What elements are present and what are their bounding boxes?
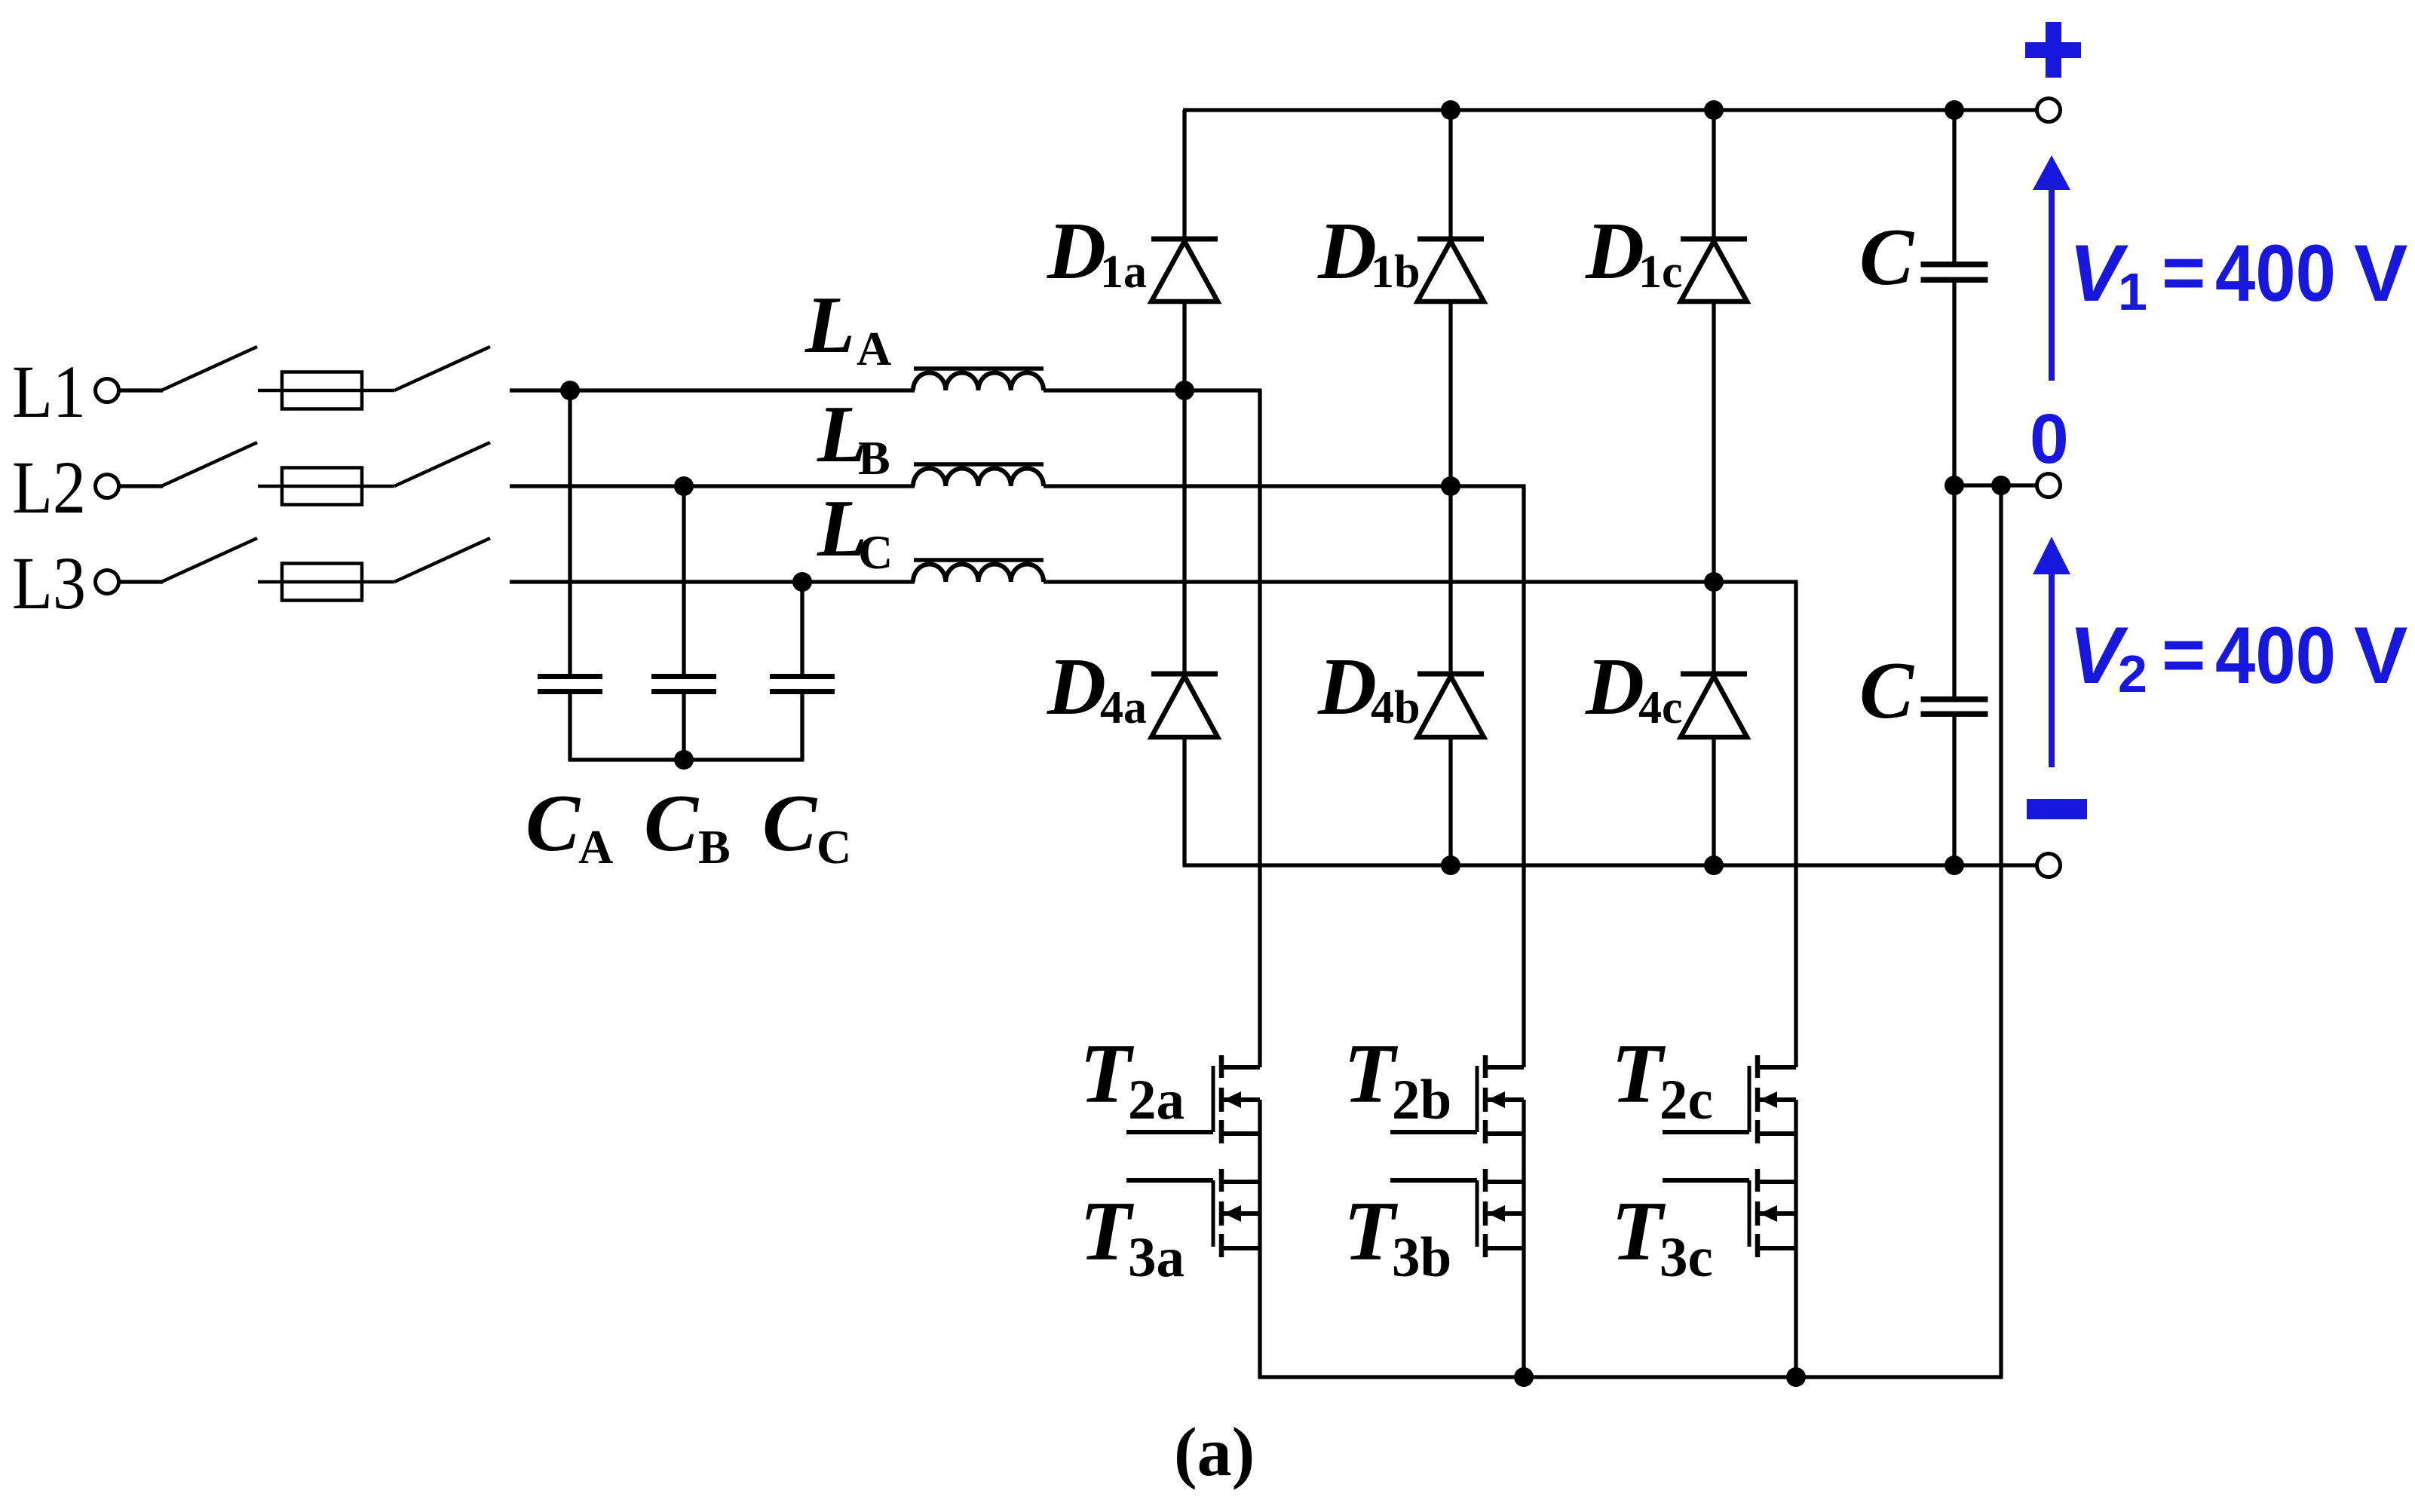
svg-text:L3: L3	[12, 541, 86, 625]
wire phase b to T2b drain	[1522, 486, 1525, 1067]
svg-text:3a: 3a	[1128, 1226, 1185, 1289]
label T3a	[1080, 1185, 1185, 1289]
svg-text:2c: 2c	[1660, 1069, 1713, 1131]
wire C chain lower	[1952, 713, 1956, 865]
svg-text:3b: 3b	[1392, 1226, 1451, 1289]
junction CB / star bus	[674, 750, 694, 770]
transistor T2a	[1126, 1055, 1260, 1143]
junction T3c source / bus	[1786, 1367, 1806, 1387]
svg-text:V: V	[2354, 610, 2407, 700]
svg-text:1a: 1a	[1100, 246, 1147, 298]
transistor T3c	[1663, 1169, 1796, 1257]
label LB	[817, 390, 890, 485]
label C upper	[1859, 213, 1915, 302]
diode D4c	[1681, 582, 1747, 865]
wire phase c to T2c drain	[1794, 582, 1797, 1067]
node top bus / C upper	[1945, 100, 1964, 120]
wire fuse L2 lead-in	[258, 485, 394, 488]
svg-text:400: 400	[2215, 228, 2336, 318]
svg-text:A: A	[578, 820, 613, 874]
label V2 = 400 V	[2069, 610, 2407, 703]
svg-text:L: L	[804, 280, 855, 370]
label LC	[817, 484, 893, 579]
transistor T3b	[1390, 1169, 1524, 1257]
diode D1c	[1681, 110, 1747, 582]
wire L3 terminal to switch	[119, 580, 163, 583]
input terminal L3	[96, 571, 119, 594]
label D4b	[1317, 642, 1420, 733]
svg-text:D: D	[1047, 642, 1106, 732]
svg-text:C: C	[817, 820, 851, 874]
svg-text:2: 2	[2118, 644, 2147, 703]
switch L1 input blade 1	[161, 347, 257, 390]
svg-text:2a: 2a	[1128, 1069, 1185, 1131]
wire L3 row to inductor LC	[510, 580, 915, 583]
label D4a	[1047, 642, 1147, 733]
diode D1a	[1151, 110, 1218, 390]
svg-text:1: 1	[2118, 262, 2147, 321]
svg-text:D: D	[1317, 207, 1377, 296]
label T2c	[1611, 1027, 1713, 1131]
wire transistor source bus	[1258, 1375, 2003, 1379]
junction L3 / CC branch	[792, 572, 812, 592]
inductor LA	[913, 369, 1044, 390]
wire C chain middle	[1952, 280, 1956, 699]
wire CA lower lead	[568, 692, 572, 760]
capacitor C upper	[1921, 262, 1988, 283]
switch L2 input blade 1	[161, 442, 257, 486]
svg-text:V: V	[2354, 228, 2407, 318]
svg-text:1c: 1c	[1638, 246, 1683, 298]
svg-text:(a): (a)	[1174, 1413, 1255, 1490]
inductor LC	[913, 560, 1044, 582]
figure label (a)	[1174, 1413, 1255, 1490]
wire phase a to T2a drain	[1258, 390, 1261, 1067]
label T3c	[1611, 1185, 1713, 1289]
wire + bus (top rail)	[1183, 108, 2037, 112]
diode D4a	[1151, 390, 1218, 865]
svg-text:D: D	[1317, 642, 1377, 732]
terminal + output	[2037, 99, 2061, 122]
junction C lower / - bus	[1945, 855, 1964, 875]
polarity - symbol	[2027, 799, 2087, 819]
svg-text:D: D	[1047, 207, 1106, 296]
terminal - output	[2037, 854, 2061, 877]
label D1a	[1047, 207, 1147, 298]
wire CA upper lead	[568, 390, 572, 676]
label LA	[804, 280, 891, 375]
svg-text:C: C	[1859, 213, 1915, 302]
svg-text:T: T	[1080, 1185, 1135, 1278]
node top bus / D1b	[1441, 100, 1460, 120]
junction D4b / - bus	[1441, 855, 1460, 875]
svg-text:T: T	[1611, 1027, 1666, 1121]
transistor T2b	[1390, 1055, 1524, 1143]
wire C chain upper	[1952, 110, 1956, 264]
junction T3b source / bus	[1514, 1367, 1534, 1387]
svg-text:4b: 4b	[1371, 682, 1420, 733]
svg-text:C: C	[526, 779, 581, 868]
svg-text:2b: 2b	[1392, 1069, 1451, 1131]
node phase c (diode midpoint)	[1704, 572, 1724, 592]
label T2b	[1344, 1027, 1451, 1131]
wire fuse L3 lead-in	[258, 580, 394, 584]
svg-text:3c: 3c	[1660, 1226, 1713, 1289]
svg-text:T: T	[1080, 1027, 1135, 1121]
junction D4c / - bus	[1704, 855, 1724, 875]
label T3b	[1344, 1185, 1451, 1289]
label L2	[12, 445, 86, 529]
svg-text:L1: L1	[12, 350, 86, 433]
svg-text:C: C	[644, 779, 700, 868]
inductor LB	[913, 464, 1044, 486]
svg-text:C: C	[1859, 646, 1915, 736]
wire LB to phase node B	[1044, 484, 1526, 488]
svg-text:B: B	[698, 820, 731, 874]
junction L1 / CA branch	[560, 381, 580, 400]
capacitor CA	[538, 674, 602, 694]
transistor T2c	[1663, 1055, 1796, 1143]
svg-text:D: D	[1585, 207, 1644, 296]
label 0 (midpoint)	[2030, 399, 2069, 478]
capacitor CB	[651, 674, 716, 694]
label L1	[12, 350, 86, 433]
polarity + symbol	[2025, 22, 2081, 78]
wire midpoint return (0 to source bus)	[1999, 485, 2003, 1377]
switch L2 blade 2	[394, 442, 490, 486]
arrow V1	[2033, 155, 2070, 381]
svg-text:T: T	[1344, 1185, 1399, 1278]
node phase b (diode midpoint)	[1441, 476, 1460, 496]
node phase a (diode midpoint)	[1175, 381, 1194, 400]
label D1c	[1585, 207, 1683, 298]
diode D1b	[1417, 110, 1484, 486]
svg-text:C: C	[858, 525, 893, 579]
switch L3 input blade 1	[161, 538, 257, 582]
arrow V2	[2033, 537, 2070, 767]
label C lower	[1859, 646, 1915, 736]
label T2a	[1080, 1027, 1185, 1131]
svg-text:4a: 4a	[1100, 682, 1147, 733]
svg-text:0: 0	[2030, 399, 2069, 478]
svg-text:B: B	[858, 431, 890, 485]
wire fuse L1 lead-in	[258, 389, 394, 393]
wire L2 terminal to switch	[119, 484, 163, 488]
switch L3 blade 2	[394, 538, 490, 582]
wire 0 row	[1954, 483, 2037, 487]
label CB	[644, 779, 731, 874]
wire L1 row to inductor LA	[510, 388, 915, 392]
svg-text:4c: 4c	[1638, 682, 1683, 733]
junction 0 row / midpoint return	[1991, 476, 2011, 495]
wire T2c/T3c source-drain bar	[1794, 1100, 1797, 1379]
wire CB lower lead	[682, 692, 685, 760]
label CC	[762, 779, 851, 874]
diode D4b	[1417, 486, 1484, 865]
wire CC lower lead	[800, 692, 804, 760]
label L3	[12, 541, 86, 625]
input terminal L1	[96, 379, 119, 402]
wire T2a/T3a source-drain bar	[1258, 1100, 1261, 1379]
junction L2 / CB branch	[674, 476, 694, 496]
fuse L1	[282, 372, 362, 409]
wire LA to phase node A	[1044, 388, 1262, 392]
wire LC to phase node C	[1044, 580, 1798, 583]
wire CC upper lead	[800, 582, 804, 676]
svg-text:T: T	[1344, 1027, 1399, 1121]
label D1b	[1317, 207, 1420, 298]
fuse L3	[282, 564, 362, 601]
fuse L2	[282, 468, 362, 505]
transistor T3a	[1126, 1169, 1260, 1257]
capacitor CC	[770, 674, 835, 694]
svg-text:T: T	[1611, 1185, 1666, 1278]
svg-text:C: C	[762, 779, 818, 868]
terminal 0 output	[2037, 474, 2061, 497]
wire L1 terminal to switch	[119, 388, 163, 392]
svg-text:L2: L2	[12, 445, 86, 529]
label V1 = 400 V	[2069, 228, 2407, 321]
wire L2 row to inductor LB	[510, 484, 915, 488]
svg-text:D: D	[1585, 642, 1644, 732]
svg-text:=: =	[2162, 613, 2205, 697]
label CA	[526, 779, 613, 874]
capacitor C lower	[1921, 696, 1988, 717]
node top bus / D1c	[1704, 100, 1724, 120]
input terminal L2	[96, 475, 119, 498]
label D4c	[1585, 642, 1683, 733]
junction C chain / 0 row	[1945, 476, 1964, 495]
wire capacitor star bus	[569, 758, 804, 761]
svg-text:A: A	[857, 322, 891, 375]
svg-text:=: =	[2162, 231, 2205, 315]
svg-text:400: 400	[2215, 610, 2336, 700]
wire - bus (bottom rail)	[1183, 863, 2037, 867]
svg-text:1b: 1b	[1371, 246, 1420, 298]
wire T2b/T3b source-drain bar	[1522, 1100, 1525, 1379]
wire CB upper lead	[682, 486, 685, 676]
switch L1 blade 2	[394, 347, 490, 390]
